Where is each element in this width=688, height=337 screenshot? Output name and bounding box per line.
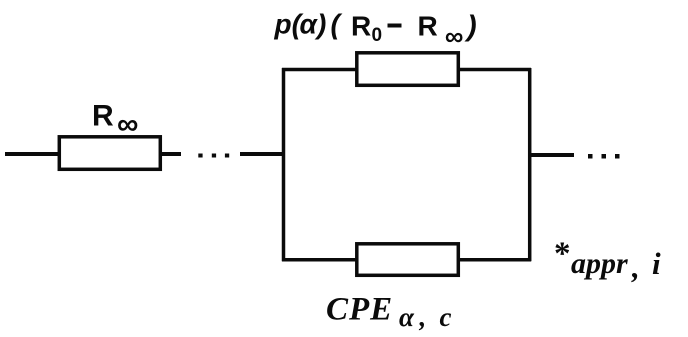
svg-text:): ) (464, 11, 477, 43)
wire: right lead (531, 153, 574, 157)
node ellipsis left (series continuation) (198, 154, 202, 158)
wire: R_inf to ellipsis (162, 152, 181, 156)
svg-text:R: R (92, 100, 114, 133)
svg-text:0: 0 (372, 25, 383, 46)
svg-text:,: , (631, 250, 640, 285)
node ellipsis right (series continuation) (588, 154, 593, 159)
svg-text:*: * (554, 236, 571, 272)
svg-text:appr: appr (571, 247, 628, 280)
svg-text:α: α (399, 302, 415, 332)
svg-text:∞: ∞ (117, 108, 138, 141)
svg-text:,: , (419, 302, 427, 332)
wire: ellipsis to parallel block (240, 152, 285, 156)
svg-text:CPE: CPE (326, 292, 393, 328)
wire: left lead (5, 152, 58, 156)
svg-text:R: R (351, 11, 371, 42)
resistor R_inf (59, 137, 160, 170)
wire: parallel block right vertical (528, 68, 532, 261)
wire: top-right branch (457, 68, 531, 72)
svg-text:∞: ∞ (445, 21, 464, 51)
resistor p(a)(R0-Rinf) (357, 53, 459, 86)
svg-text:α: α (300, 9, 319, 40)
capacitor CPE (constant phase element box) (357, 244, 459, 275)
svg-text:R: R (418, 11, 438, 42)
svg-text:(: ( (331, 9, 343, 40)
wire: parallel block left vertical (282, 68, 286, 261)
wire: bottom-right branch (457, 258, 531, 262)
wire: bottom-left branch (282, 258, 357, 262)
svg-text:i: i (652, 246, 661, 281)
wire: top-left branch (282, 68, 357, 72)
svg-text:c: c (440, 302, 452, 332)
